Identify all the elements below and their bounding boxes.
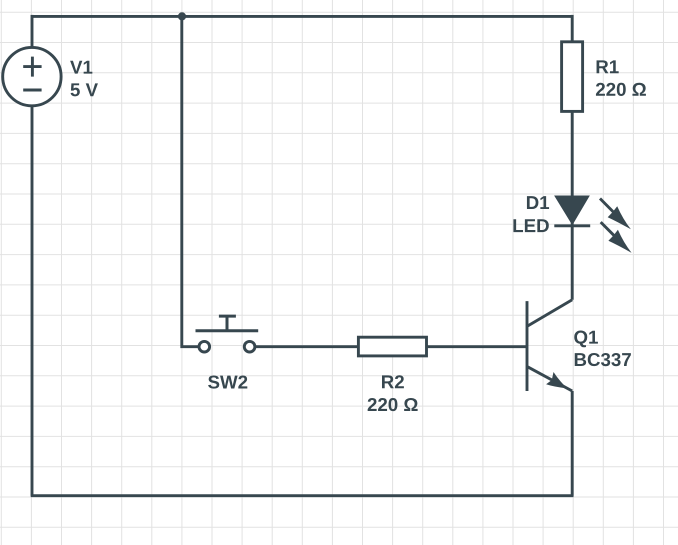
wire V1 top lead bbox=[31, 15, 34, 48]
resistor R2 bbox=[358, 337, 426, 356]
switch SW2 left contact bbox=[199, 341, 210, 352]
label 5 V bbox=[71, 83, 98, 96]
wire junction to switch bbox=[182, 16, 199, 346]
label 220 Ω bbox=[368, 398, 418, 411]
transistor Q1 collector lead bbox=[528, 300, 573, 326]
LED emission arrow 2 bbox=[601, 222, 632, 253]
switch SW2 right contact bbox=[244, 341, 255, 352]
label LED bbox=[513, 219, 548, 232]
label R1 bbox=[597, 60, 619, 73]
wire R1 top lead bbox=[571, 15, 574, 42]
transistor Q1 base bar bbox=[526, 301, 529, 391]
LED emission arrow 1 bbox=[600, 199, 631, 230]
label 220 Ω bbox=[596, 83, 646, 96]
node junction dot bbox=[178, 12, 186, 20]
wire top rail bbox=[32, 15, 572, 18]
voltage source V1 bbox=[3, 47, 61, 105]
wire left rail bbox=[31, 106, 34, 496]
label D1 bbox=[527, 196, 549, 209]
transistor Q1 emitter lead bbox=[528, 367, 573, 391]
label SW2 bbox=[208, 375, 247, 388]
transistor Q1 emitter arrow bbox=[546, 372, 567, 389]
label BC337 bbox=[575, 353, 631, 366]
diode D1 LED triangle bbox=[556, 197, 588, 224]
wire switch to R2 bbox=[255, 345, 358, 348]
wire bottom rail bbox=[31, 494, 574, 497]
diode D1 cathode bar bbox=[554, 224, 590, 227]
switch SW2 actuator bbox=[196, 316, 259, 331]
label Q1 bbox=[574, 331, 598, 348]
label V1 bbox=[70, 61, 92, 74]
wire R1 to LED to Q1 collector bbox=[571, 111, 574, 299]
resistor R1 bbox=[562, 42, 583, 112]
wire R2 to Q1 base bbox=[427, 345, 528, 348]
wire Q1 emitter to bottom rail bbox=[571, 391, 574, 496]
label R2 bbox=[382, 375, 404, 388]
